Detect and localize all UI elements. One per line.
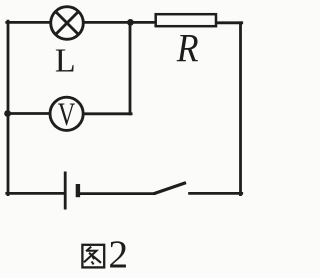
switch S (open lever) xyxy=(154,183,186,194)
wire: voltmeter branch left xyxy=(8,112,49,115)
wire: resistor to top-right corner xyxy=(217,21,242,24)
battery cell: long plate (+) xyxy=(64,172,67,210)
wire: right vertical xyxy=(239,23,242,195)
svg-text:L: L xyxy=(55,42,76,79)
voltmeter V (circle) xyxy=(50,97,83,130)
wire: voltmeter to riser xyxy=(84,112,131,115)
svg-text:2: 2 xyxy=(108,232,128,276)
svg-text:V: V xyxy=(58,97,76,133)
node B junction dot (left, voltmeter tap) xyxy=(4,110,11,117)
caption: character 图 (drawn) xyxy=(82,245,104,268)
svg-text:R: R xyxy=(176,25,199,70)
wire: left vertical xyxy=(7,21,10,194)
battery cell: short plate (-) xyxy=(76,184,80,197)
wire: lamp to resistor (through node A) xyxy=(84,21,155,24)
node A junction dot xyxy=(127,19,134,26)
wire: bottom-left to battery xyxy=(7,192,64,195)
wire: riser up to node A xyxy=(129,22,132,113)
resistor R (rectangle) xyxy=(156,14,216,26)
wire: battery to switch pivot xyxy=(80,192,154,195)
wire: switch contact to bottom-right corner xyxy=(190,192,242,195)
wire: top-left corner to lamp xyxy=(7,21,50,24)
lamp L (circle with X) xyxy=(51,7,84,40)
